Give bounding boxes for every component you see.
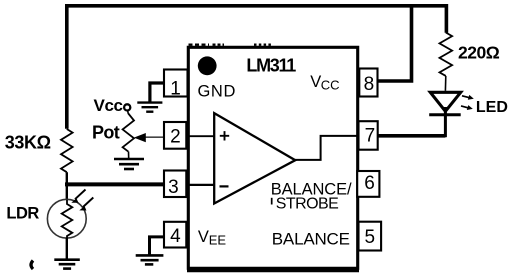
svg-text:7: 7 xyxy=(365,126,376,147)
LED D1 xyxy=(430,92,460,111)
wire pin4 to ground xyxy=(150,237,166,255)
LDR light arrows xyxy=(75,190,86,200)
svg-text:3: 3 xyxy=(168,177,179,198)
wire Vcc to pot xyxy=(127,111,130,114)
pin 3 box xyxy=(164,171,186,198)
IC bottom edge thick xyxy=(187,268,359,272)
op-amp IC U1 LM311 body xyxy=(188,47,357,268)
svg-text:STROBE: STROBE xyxy=(276,196,339,213)
wire pin3 to - input xyxy=(186,184,214,186)
svg-text:Pot: Pot xyxy=(92,123,120,143)
plus input mark xyxy=(220,131,229,140)
wire 33K to node A and pin3 xyxy=(66,172,68,200)
comparator triangle xyxy=(214,113,295,203)
scan tick marks above IC top edge xyxy=(189,44,274,46)
pin 7 box xyxy=(359,121,378,150)
wire LDR to ground xyxy=(66,238,68,260)
wire LED to pin7 rail xyxy=(444,107,447,137)
wire pot to ground xyxy=(128,152,130,159)
svg-text:BALANCE: BALANCE xyxy=(272,229,350,248)
wire pin2 to + input xyxy=(186,135,214,137)
LDR photoresistor xyxy=(47,199,86,238)
svg-text:2: 2 xyxy=(170,126,181,147)
svg-text:LDR: LDR xyxy=(6,204,39,222)
pin 2 box xyxy=(164,122,186,149)
ground pin4 xyxy=(136,255,164,264)
svg-text:GND: GND xyxy=(198,82,236,100)
wire pin1 to ground xyxy=(150,83,165,102)
scan smudge bottom-left xyxy=(31,261,33,270)
wire 220R to LED xyxy=(444,76,446,91)
wire pin7 to LED xyxy=(378,134,446,138)
pin 8 box xyxy=(359,69,377,97)
svg-text:CC: CC xyxy=(321,78,340,93)
wire pin8 to top rail xyxy=(378,4,412,81)
svg-text:Vcc: Vcc xyxy=(94,96,123,115)
svg-text:5: 5 xyxy=(365,227,376,248)
svg-text:6: 6 xyxy=(364,173,375,194)
svg-text:EE: EE xyxy=(209,233,227,248)
ground LDR xyxy=(54,260,80,269)
svg-text:LED: LED xyxy=(476,99,508,116)
pin 6 box xyxy=(357,171,379,197)
svg-text:4: 4 xyxy=(170,226,181,247)
svg-text:LM311: LM311 xyxy=(246,55,296,75)
svg-text:V: V xyxy=(310,73,321,91)
wire node A to pin 3 xyxy=(65,182,165,186)
pin1 indicator dot GND xyxy=(198,56,217,75)
resistor 220R xyxy=(439,33,452,76)
pot wiper arrow to pin 2 xyxy=(145,136,165,138)
LED light arrows xyxy=(462,96,470,98)
svg-text:220Ω: 220Ω xyxy=(458,42,500,62)
pin 4 box xyxy=(164,222,186,248)
ground pot xyxy=(114,159,144,169)
pin 5 box xyxy=(359,222,382,251)
wire top supply loop xyxy=(67,6,447,129)
svg-text:33KΩ: 33KΩ xyxy=(5,132,51,152)
svg-text:V: V xyxy=(198,228,209,246)
resistor 33K xyxy=(61,129,73,172)
wire output to pin 7 xyxy=(295,136,358,160)
minus input mark xyxy=(220,185,229,187)
apostrophe tick before STROBE xyxy=(271,198,273,205)
svg-text:1: 1 xyxy=(170,78,181,99)
svg-text:8: 8 xyxy=(364,74,375,95)
potentiometer Pot xyxy=(123,114,134,152)
ground pin1 xyxy=(137,103,162,112)
pin 1 box xyxy=(164,70,188,97)
